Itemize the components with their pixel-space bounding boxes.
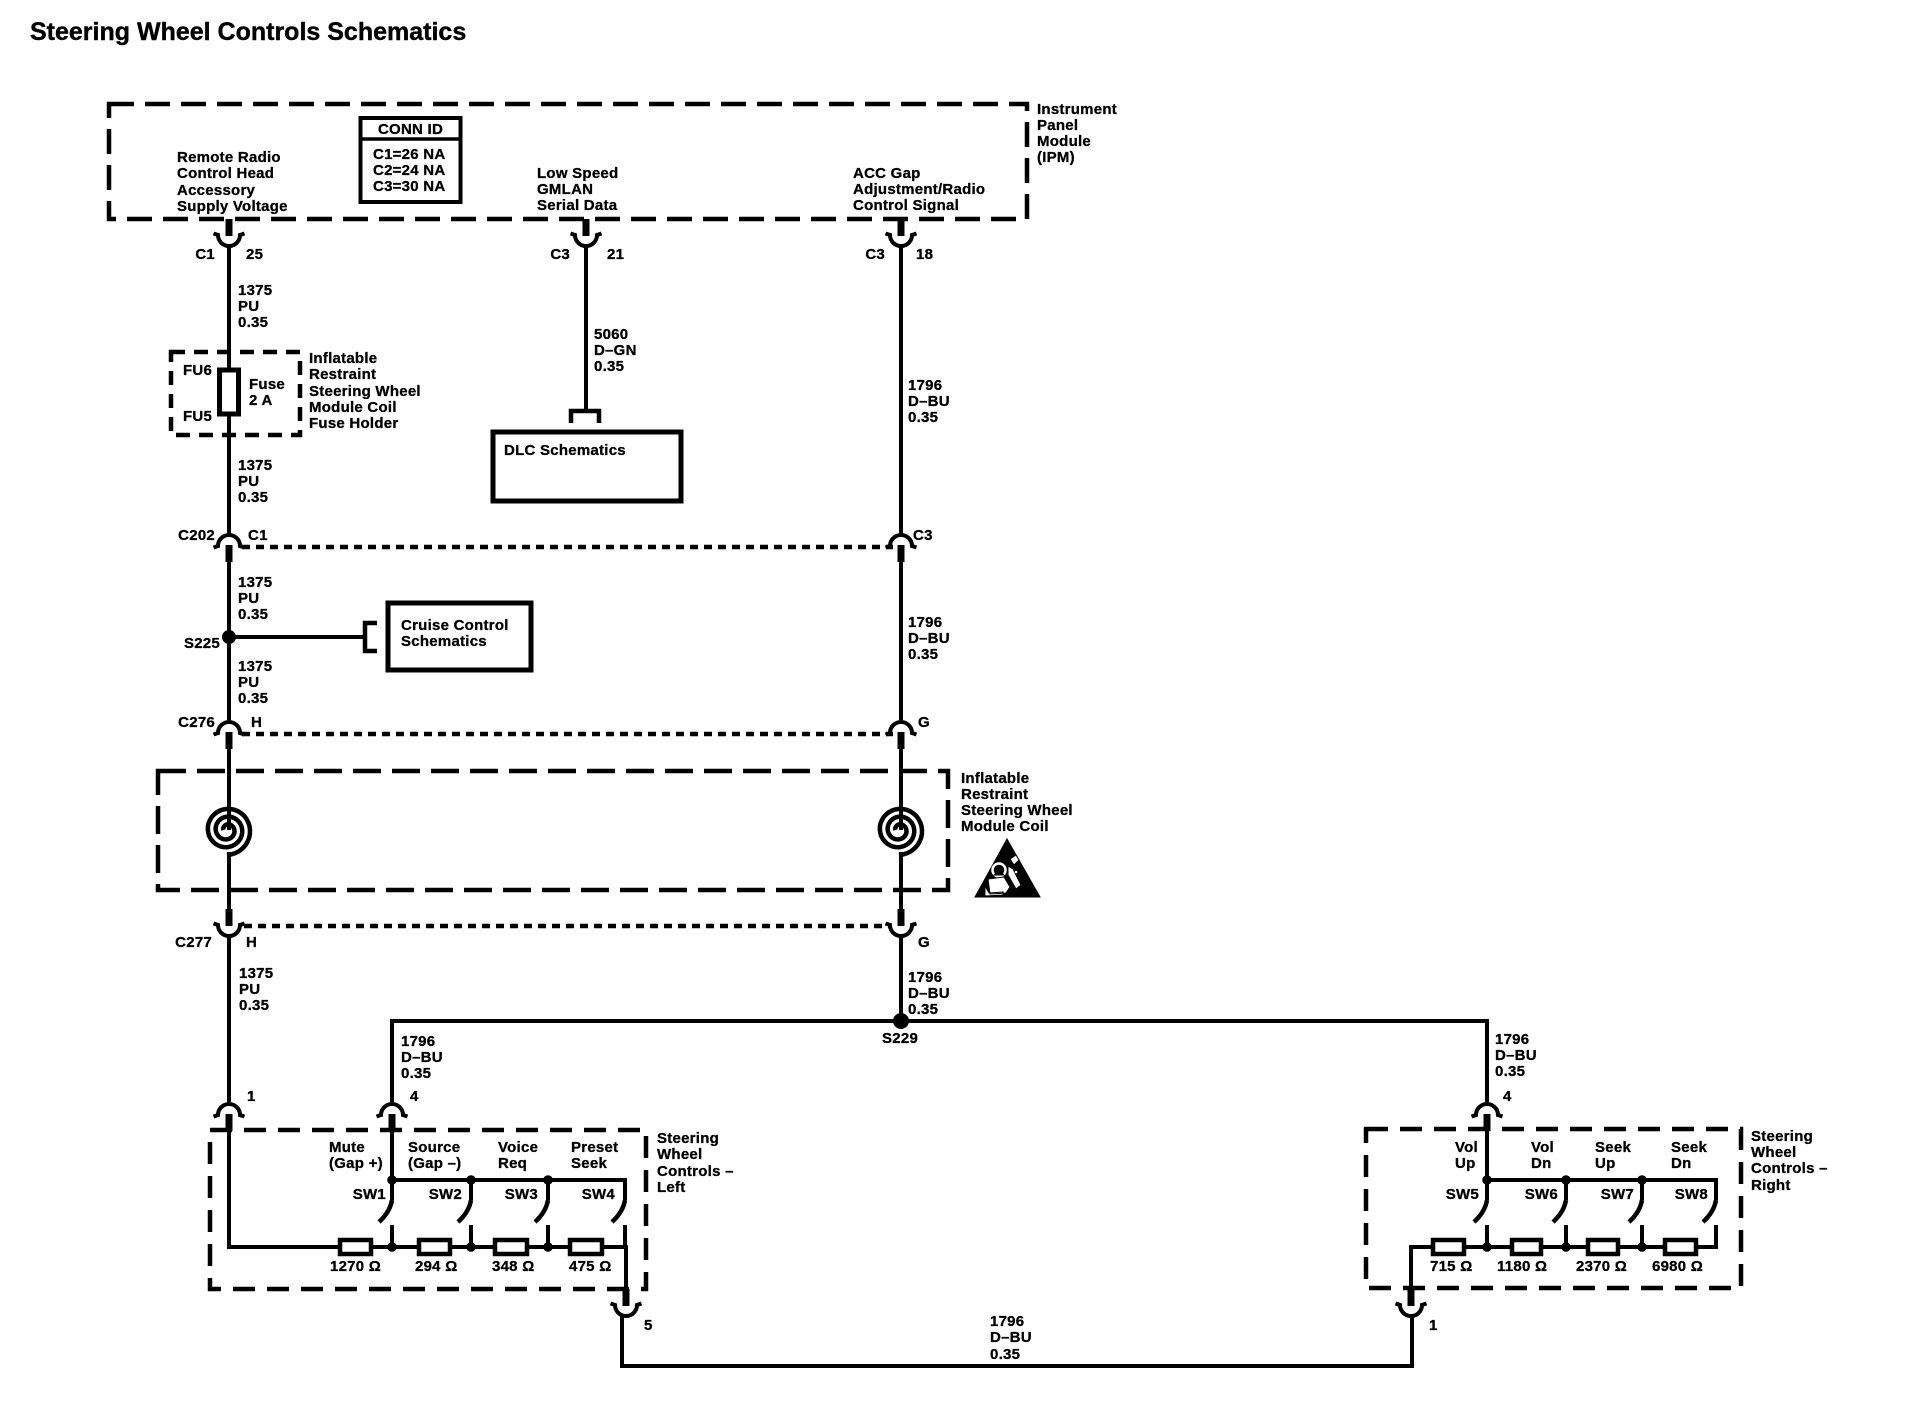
svg-text:0.35: 0.35 bbox=[908, 1001, 938, 1018]
svg-text:C3=30 NA: C3=30 NA bbox=[373, 178, 445, 195]
svg-text:Wheel: Wheel bbox=[1751, 1144, 1796, 1161]
svg-text:SW1: SW1 bbox=[353, 1186, 386, 1203]
svg-text:C2=24 NA: C2=24 NA bbox=[373, 162, 445, 179]
svg-text:Seek: Seek bbox=[571, 1155, 607, 1172]
svg-text:H: H bbox=[246, 934, 257, 951]
svg-text:1375: 1375 bbox=[238, 574, 272, 591]
svg-text:2 A: 2 A bbox=[249, 392, 273, 409]
svg-text:Fuse: Fuse bbox=[249, 376, 285, 393]
svg-text:4: 4 bbox=[410, 1088, 419, 1105]
svg-text:SW7: SW7 bbox=[1601, 1186, 1634, 1203]
svg-text:H: H bbox=[251, 714, 262, 731]
svg-text:0.35: 0.35 bbox=[401, 1065, 431, 1082]
svg-text:Up: Up bbox=[1455, 1155, 1476, 1172]
svg-text:SW3: SW3 bbox=[505, 1186, 538, 1203]
svg-text:Dn: Dn bbox=[1671, 1155, 1692, 1172]
svg-text:D–BU: D–BU bbox=[1495, 1047, 1537, 1064]
svg-text:18: 18 bbox=[916, 246, 933, 263]
svg-text:D–BU: D–BU bbox=[908, 393, 950, 410]
svg-text:C1: C1 bbox=[195, 246, 215, 263]
svg-text:Steering Wheel: Steering Wheel bbox=[309, 383, 421, 400]
svg-text:Mute: Mute bbox=[329, 1139, 365, 1156]
svg-text:Instrument: Instrument bbox=[1037, 101, 1117, 118]
svg-text:Up: Up bbox=[1595, 1155, 1616, 1172]
svg-text:D–GN: D–GN bbox=[594, 342, 637, 359]
svg-text:FU5: FU5 bbox=[183, 408, 212, 425]
svg-text:Right: Right bbox=[1751, 1177, 1791, 1194]
svg-text:2370 Ω: 2370 Ω bbox=[1576, 1258, 1627, 1275]
svg-text:1: 1 bbox=[1429, 1317, 1438, 1334]
svg-text:Panel: Panel bbox=[1037, 117, 1078, 134]
svg-text:SW5: SW5 bbox=[1446, 1186, 1479, 1203]
svg-text:0.35: 0.35 bbox=[238, 489, 268, 506]
svg-text:1375: 1375 bbox=[239, 965, 273, 982]
svg-text:FU6: FU6 bbox=[183, 362, 212, 379]
svg-text:4: 4 bbox=[1503, 1088, 1512, 1105]
svg-text:1375: 1375 bbox=[238, 658, 272, 675]
svg-text:1796: 1796 bbox=[401, 1033, 435, 1050]
svg-text:1375: 1375 bbox=[238, 457, 272, 474]
svg-text:C3: C3 bbox=[865, 246, 885, 263]
svg-text:PU: PU bbox=[238, 473, 259, 490]
svg-text:5: 5 bbox=[644, 1317, 653, 1334]
svg-text:C1=26 NA: C1=26 NA bbox=[373, 146, 445, 163]
svg-text:Steering: Steering bbox=[657, 1130, 719, 1147]
svg-text:Module: Module bbox=[1037, 133, 1091, 150]
svg-text:Inflatable: Inflatable bbox=[961, 770, 1029, 787]
svg-text:PU: PU bbox=[238, 298, 259, 315]
svg-text:Steering Wheel: Steering Wheel bbox=[961, 802, 1073, 819]
svg-text:6980 Ω: 6980 Ω bbox=[1652, 1258, 1703, 1275]
svg-text:Adjustment/Radio: Adjustment/Radio bbox=[853, 181, 985, 198]
svg-text:5060: 5060 bbox=[594, 326, 628, 343]
svg-text:S225: S225 bbox=[184, 635, 220, 652]
svg-text:Wheel: Wheel bbox=[657, 1146, 702, 1163]
svg-text:1796: 1796 bbox=[908, 969, 942, 986]
svg-text:1: 1 bbox=[247, 1088, 256, 1105]
svg-text:PU: PU bbox=[238, 674, 259, 691]
svg-text:Restraint: Restraint bbox=[961, 786, 1028, 803]
svg-text:Control Head: Control Head bbox=[177, 165, 274, 182]
svg-text:1796: 1796 bbox=[1495, 1031, 1529, 1048]
svg-text:1796: 1796 bbox=[908, 377, 942, 394]
svg-text:C277: C277 bbox=[175, 934, 212, 951]
svg-text:0.35: 0.35 bbox=[594, 358, 624, 375]
svg-text:Req: Req bbox=[498, 1155, 527, 1172]
svg-text:0.35: 0.35 bbox=[1495, 1063, 1525, 1080]
svg-text:C1: C1 bbox=[248, 527, 268, 544]
svg-text:Source: Source bbox=[408, 1139, 460, 1156]
svg-text:CONN ID: CONN ID bbox=[378, 121, 443, 138]
svg-text:348 Ω: 348 Ω bbox=[492, 1258, 534, 1275]
svg-text:0.35: 0.35 bbox=[239, 997, 269, 1014]
svg-text:Fuse Holder: Fuse Holder bbox=[309, 415, 398, 432]
svg-text:D–BU: D–BU bbox=[908, 985, 950, 1002]
svg-text:Voice: Voice bbox=[498, 1139, 538, 1156]
svg-text:Serial Data: Serial Data bbox=[537, 197, 618, 214]
svg-text:1796: 1796 bbox=[908, 614, 942, 631]
svg-text:Module Coil: Module Coil bbox=[309, 399, 397, 416]
svg-text:C3: C3 bbox=[913, 527, 933, 544]
svg-text:(Gap –): (Gap –) bbox=[408, 1155, 461, 1172]
svg-text:0.35: 0.35 bbox=[238, 690, 268, 707]
svg-text:Remote Radio: Remote Radio bbox=[177, 149, 281, 166]
svg-text:Controls –: Controls – bbox=[657, 1163, 734, 1180]
svg-text:Seek: Seek bbox=[1595, 1139, 1631, 1156]
svg-text:D–BU: D–BU bbox=[401, 1049, 443, 1066]
svg-text:D–BU: D–BU bbox=[908, 630, 950, 647]
svg-text:0.35: 0.35 bbox=[908, 646, 938, 663]
svg-text:1270 Ω: 1270 Ω bbox=[330, 1258, 381, 1275]
svg-text:S229: S229 bbox=[882, 1030, 918, 1047]
svg-text:Schematics: Schematics bbox=[401, 633, 487, 650]
svg-text:Accessory: Accessory bbox=[177, 182, 256, 199]
svg-text:DLC Schematics: DLC Schematics bbox=[504, 442, 626, 459]
svg-text:Cruise Control: Cruise Control bbox=[401, 617, 509, 634]
svg-text:(Gap +): (Gap +) bbox=[329, 1155, 383, 1172]
svg-text:GMLAN: GMLAN bbox=[537, 181, 593, 198]
svg-text:G: G bbox=[918, 934, 930, 951]
svg-text:Steering Wheel Controls Schema: Steering Wheel Controls Schematics bbox=[30, 18, 466, 46]
svg-text:PU: PU bbox=[239, 981, 260, 998]
svg-text:PU: PU bbox=[238, 590, 259, 607]
svg-text:Steering: Steering bbox=[1751, 1128, 1813, 1145]
svg-text:SW4: SW4 bbox=[582, 1186, 616, 1203]
svg-text:(IPM): (IPM) bbox=[1037, 149, 1075, 166]
svg-text:SW8: SW8 bbox=[1675, 1186, 1708, 1203]
svg-text:C3: C3 bbox=[550, 246, 570, 263]
svg-text:C202: C202 bbox=[178, 527, 215, 544]
svg-text:0.35: 0.35 bbox=[990, 1346, 1020, 1363]
svg-text:D–BU: D–BU bbox=[990, 1329, 1032, 1346]
svg-text:1180 Ω: 1180 Ω bbox=[1497, 1258, 1547, 1275]
svg-text:Dn: Dn bbox=[1531, 1155, 1552, 1172]
svg-text:1796: 1796 bbox=[990, 1313, 1024, 1330]
svg-text:SW6: SW6 bbox=[1525, 1186, 1558, 1203]
svg-text:C276: C276 bbox=[178, 714, 215, 731]
svg-text:715 Ω: 715 Ω bbox=[1430, 1258, 1472, 1275]
svg-text:Inflatable: Inflatable bbox=[309, 350, 377, 367]
svg-text:1375: 1375 bbox=[238, 282, 272, 299]
svg-text:0.35: 0.35 bbox=[238, 314, 268, 331]
svg-text:Vol: Vol bbox=[1531, 1139, 1554, 1156]
svg-text:ACC Gap: ACC Gap bbox=[853, 165, 921, 182]
svg-text:Restraint: Restraint bbox=[309, 366, 376, 383]
svg-text:Vol: Vol bbox=[1455, 1139, 1478, 1156]
svg-text:Low Speed: Low Speed bbox=[537, 165, 618, 182]
svg-text:294 Ω: 294 Ω bbox=[415, 1258, 457, 1275]
svg-text:21: 21 bbox=[607, 246, 624, 263]
svg-text:25: 25 bbox=[246, 246, 263, 263]
svg-text:Left: Left bbox=[657, 1179, 686, 1196]
svg-text:Seek: Seek bbox=[1671, 1139, 1707, 1156]
svg-text:Controls –: Controls – bbox=[1751, 1160, 1828, 1177]
svg-text:Module Coil: Module Coil bbox=[961, 818, 1049, 835]
svg-text:0.35: 0.35 bbox=[238, 606, 268, 623]
svg-text:475 Ω: 475 Ω bbox=[569, 1258, 611, 1275]
svg-text:G: G bbox=[918, 714, 930, 731]
svg-text:SW2: SW2 bbox=[429, 1186, 462, 1203]
svg-text:0.35: 0.35 bbox=[908, 409, 938, 426]
svg-text:Preset: Preset bbox=[571, 1139, 618, 1156]
svg-text:Control Signal: Control Signal bbox=[853, 197, 959, 214]
svg-text:Supply Voltage: Supply Voltage bbox=[177, 198, 288, 215]
